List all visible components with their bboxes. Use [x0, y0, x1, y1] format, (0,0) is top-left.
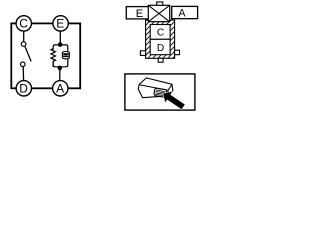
svg-text:D: D [157, 43, 164, 54]
resistor R (parallel with coil) [51, 49, 56, 67]
terminal E [53, 16, 68, 31]
tab: right lug of connector [175, 50, 180, 55]
wire: switch bottom contact to terminal D [22, 66, 24, 81]
tab: top lug on relay body [157, 2, 163, 6]
arrow pointing to relay connector [163, 92, 185, 110]
tab: bottom lug of connector [158, 58, 163, 62]
terminal D cavity box [150, 39, 170, 54]
relay 3D body [138, 78, 173, 98]
node: junction dot (A side) [58, 66, 63, 71]
svg-text:C: C [19, 17, 28, 31]
wire: top rail of parallel pair [53, 45, 68, 50]
terminal C [16, 16, 31, 31]
connector column outer body (cross-section) [146, 20, 175, 58]
svg-text:C: C [157, 28, 164, 39]
svg-text:E: E [56, 17, 64, 31]
terminal C cavity box [150, 25, 170, 40]
hatch: sectioned border of connector column [138, 0, 186, 103]
wire: bottom rail of parallel pair [53, 62, 68, 67]
switch contact (top, from C) [21, 42, 26, 47]
coil L (relay coil) [62, 50, 69, 63]
wire: terminal E down to junction node [59, 31, 61, 45]
svg-text:A: A [56, 81, 64, 95]
terminal D [16, 81, 31, 96]
tab: left lug of connector [140, 51, 145, 56]
terminal E box (connector top view) [126, 7, 149, 19]
relay body keyway (crossed square) [148, 5, 169, 21]
svg-text:E: E [136, 8, 143, 20]
wire: outer loop rectangle of relay circuit [11, 23, 80, 88]
wire: junction node to terminal A [59, 68, 61, 82]
terminal A [53, 81, 68, 96]
wire: terminal C to switch top contact [23, 31, 25, 43]
frame of relay illustration [125, 74, 195, 110]
terminal A box (connector top view) [172, 6, 198, 18]
switch contact (bottom, to D) [21, 62, 26, 67]
node: junction dot (E side) [58, 42, 63, 47]
svg-text:D: D [19, 81, 28, 95]
switch blade (open) [25, 46, 31, 61]
svg-text:A: A [178, 8, 186, 20]
relay connector block (pins) [154, 88, 167, 97]
